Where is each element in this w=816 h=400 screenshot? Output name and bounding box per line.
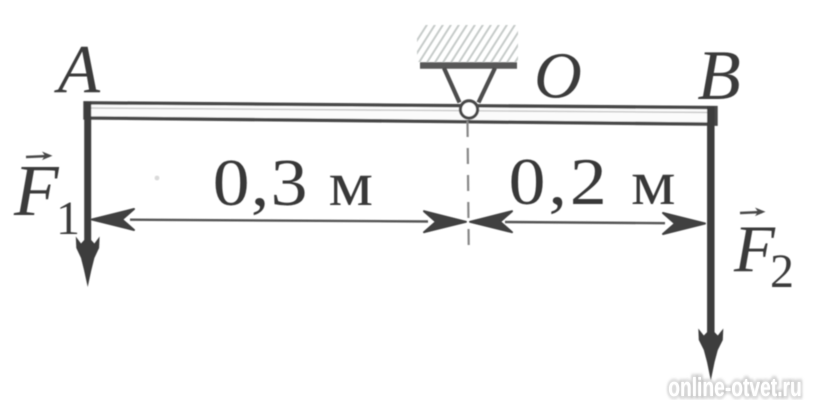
svg-text:2: 2 (770, 245, 794, 298)
dimension text 0,3 m (213, 146, 375, 220)
paper speck (155, 176, 160, 181)
label F2 with vector arrow (733, 208, 794, 299)
force F1 line (76, 102, 100, 288)
label A (54, 31, 101, 107)
label B (697, 37, 740, 115)
pivot triangle (444, 68, 495, 103)
svg-text:0,3 м: 0,3 м (213, 146, 375, 220)
svg-text:B: B (697, 37, 740, 115)
dimension line 0,2 m (470, 211, 705, 234)
svg-text:F: F (13, 150, 60, 231)
svg-text:A: A (54, 31, 101, 107)
svg-text:1: 1 (56, 192, 80, 245)
dimension text 0,2 m (509, 145, 679, 219)
force F2 line (698, 107, 723, 381)
support bar (420, 62, 517, 69)
svg-text:online-otvet.ru: online-otvet.ru (668, 372, 802, 400)
label F1 with vector arrow (13, 150, 80, 245)
svg-text:O: O (534, 40, 582, 113)
label O (534, 40, 582, 113)
dimension line 0,3 m (92, 209, 466, 232)
beam AB (85, 103, 716, 124)
dashed centerline under pivot (468, 121, 469, 256)
pivot circle (460, 101, 477, 118)
watermark online-otvet.ru (668, 372, 802, 400)
svg-text:0,2 м: 0,2 м (509, 145, 679, 219)
hatched wall above pivot (402, 20, 542, 64)
